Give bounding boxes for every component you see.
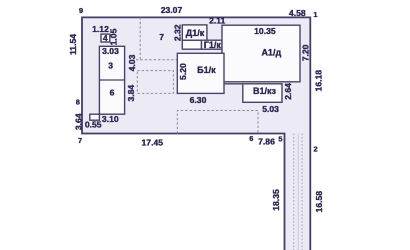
svg-text:6: 6 bbox=[249, 134, 253, 143]
svg-text:4.58: 4.58 bbox=[289, 8, 306, 18]
svg-text:23.07: 23.07 bbox=[161, 5, 183, 15]
svg-text:3: 3 bbox=[108, 61, 113, 71]
svg-text:7: 7 bbox=[159, 32, 164, 42]
svg-text:1.05: 1.05 bbox=[108, 28, 118, 45]
svg-text:0.55: 0.55 bbox=[85, 120, 102, 130]
svg-text:6.30: 6.30 bbox=[190, 95, 207, 105]
svg-text:7.20: 7.20 bbox=[300, 44, 310, 61]
svg-text:6: 6 bbox=[110, 88, 115, 98]
svg-text:7: 7 bbox=[78, 136, 82, 145]
svg-text:Г1/к: Г1/к bbox=[204, 40, 222, 50]
svg-text:3.84: 3.84 bbox=[126, 85, 136, 102]
svg-text:3.10: 3.10 bbox=[102, 114, 119, 124]
svg-text:3.64: 3.64 bbox=[73, 113, 83, 130]
svg-text:9: 9 bbox=[79, 6, 83, 15]
svg-text:7.86: 7.86 bbox=[258, 137, 275, 147]
svg-text:5.20: 5.20 bbox=[178, 63, 188, 80]
svg-text:Д1/к: Д1/к bbox=[186, 28, 205, 38]
svg-text:11.54: 11.54 bbox=[68, 34, 78, 55]
svg-text:4: 4 bbox=[103, 33, 108, 43]
svg-text:В1/кз: В1/кз bbox=[253, 86, 277, 96]
svg-text:2.64: 2.64 bbox=[283, 83, 293, 100]
svg-text:3.03: 3.03 bbox=[102, 46, 119, 56]
svg-text:2.32: 2.32 bbox=[173, 24, 183, 41]
svg-text:2.11: 2.11 bbox=[209, 16, 225, 26]
svg-text:2: 2 bbox=[313, 145, 317, 154]
svg-text:5.03: 5.03 bbox=[262, 104, 279, 114]
svg-text:18.35: 18.35 bbox=[271, 189, 281, 211]
svg-text:Б1/к: Б1/к bbox=[197, 65, 216, 75]
svg-text:10.35: 10.35 bbox=[254, 26, 276, 36]
svg-text:16.58: 16.58 bbox=[314, 191, 324, 213]
svg-text:17.45: 17.45 bbox=[142, 138, 164, 148]
svg-text:1: 1 bbox=[313, 10, 317, 19]
svg-text:5: 5 bbox=[278, 135, 282, 144]
svg-text:4.03: 4.03 bbox=[127, 54, 137, 71]
svg-text:16.18: 16.18 bbox=[314, 70, 324, 92]
svg-text:А1/д: А1/д bbox=[261, 48, 281, 58]
svg-text:8: 8 bbox=[76, 98, 80, 107]
